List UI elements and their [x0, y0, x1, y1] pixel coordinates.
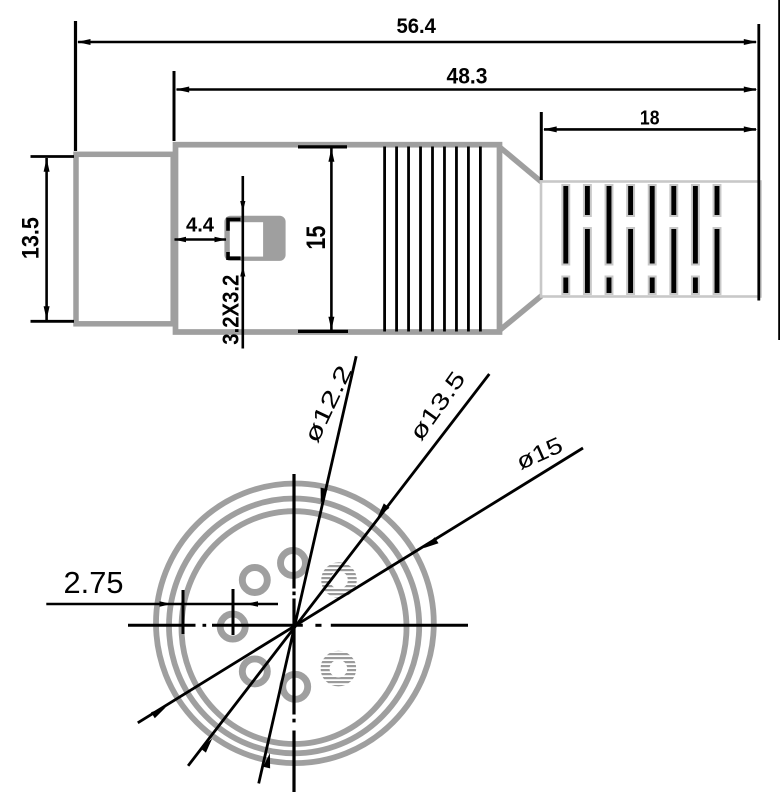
svg-text:18: 18 [640, 108, 660, 130]
svg-text:15: 15 [301, 226, 331, 250]
svg-text:13.5: 13.5 [18, 217, 45, 259]
svg-text:4.4: 4.4 [186, 215, 215, 237]
svg-text:3.2X3.2: 3.2X3.2 [217, 275, 243, 345]
svg-text:48.3: 48.3 [447, 64, 488, 89]
svg-text:56.4: 56.4 [396, 15, 436, 38]
svg-text:2.75: 2.75 [64, 565, 124, 600]
